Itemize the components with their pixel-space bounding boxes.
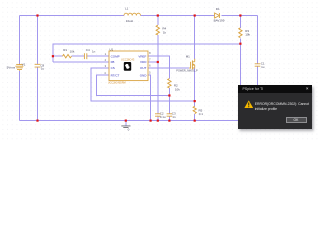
- svg-text:POWER_NMOS_P: POWER_NMOS_P: [176, 70, 198, 73]
- node bus ground: [125, 120, 127, 122]
- svg-text:U1: U1: [109, 47, 113, 51]
- node CS junction: [194, 100, 196, 102]
- wire COMP R1-C4 link: [72, 55, 84, 57]
- wire OUT to gate: [148, 67, 189, 69]
- wire VREF stub and R2 top: [148, 56, 169, 78]
- svg-text:1: 1: [105, 52, 107, 56]
- capacitor C2: [155, 114, 161, 116]
- node bus C3: [168, 120, 170, 122]
- wire R4 VDD line middle: [157, 35, 159, 114]
- capacitor C8: [35, 64, 41, 67]
- resistor R5: [193, 106, 196, 113]
- wire ground symbol stub: [125, 121, 127, 126]
- svg-text:1u: 1u: [261, 65, 265, 69]
- node bus C8: [36, 120, 38, 122]
- transistor M1: [189, 59, 195, 70]
- svg-text:0.1u: 0.1u: [160, 115, 166, 119]
- svg-text:RT/CT: RT/CT: [111, 73, 120, 77]
- capacitor C3: [167, 114, 173, 116]
- node bus GND pin: [150, 120, 152, 122]
- wire V1 vertical upper: [19, 16, 21, 65]
- wire RT/CT pin 4 loop: [96, 75, 169, 96]
- source V1: [15, 64, 23, 71]
- node RT/CT junction: [168, 94, 170, 96]
- wire FB feedback top: [53, 44, 241, 62]
- svg-text:V1: V1: [22, 62, 26, 66]
- svg-text:UCC28C43DRM: UCC28C43DRM: [108, 81, 126, 84]
- wire COMP left lead: [53, 55, 63, 57]
- svg-text:10k: 10k: [70, 49, 75, 53]
- node top junction R3: [239, 14, 241, 16]
- wire C8 vertical upper: [37, 16, 39, 65]
- node COMP tap: [52, 55, 54, 57]
- wire C8 vertical lower: [37, 68, 39, 121]
- svg-text:1k: 1k: [163, 30, 167, 34]
- resistor R4: [156, 25, 159, 35]
- capacitor C1: [255, 64, 261, 66]
- svg-text:1n: 1n: [172, 115, 176, 119]
- svg-text:C4: C4: [86, 48, 90, 52]
- op-amp U1 box: [109, 51, 148, 81]
- wire R5 bottom lead: [194, 114, 196, 120]
- wire ground bus: [20, 120, 239, 122]
- svg-text:5Vrms: 5Vrms: [7, 65, 16, 69]
- wire top bus middle segment: [141, 15, 214, 17]
- wire C3 bottom lead: [168, 116, 170, 120]
- svg-text:VDD: VDD: [140, 60, 147, 64]
- wire VDD stub: [148, 61, 158, 63]
- wire C1 line top: [257, 16, 259, 64]
- node top junction C8: [36, 14, 38, 16]
- svg-text:L1: L1: [125, 7, 129, 11]
- svg-text:8: 8: [149, 51, 151, 55]
- resistor R2: [168, 79, 171, 89]
- resistor R3: [239, 28, 242, 38]
- wire V1 vertical lower: [19, 71, 21, 121]
- wire top bus left segment: [20, 15, 125, 17]
- wire C1 bottom lead: [257, 66, 259, 85]
- node bus C2: [157, 120, 159, 122]
- resistor R1: [63, 55, 72, 58]
- inductor L1: [124, 13, 140, 15]
- node VDD junction: [157, 61, 159, 63]
- node bus R5: [194, 120, 196, 122]
- wire R3 bottom to FB node: [239, 39, 241, 86]
- svg-text:R1: R1: [63, 48, 67, 52]
- svg-text:UCC28C43: UCC28C43: [121, 58, 135, 62]
- wire GND stub down: [148, 75, 151, 121]
- wire R3 line top: [239, 16, 241, 28]
- svg-text:10k: 10k: [175, 88, 180, 92]
- dialog PSpice for TI error: [238, 85, 312, 129]
- svg-text:FB: FB: [111, 60, 115, 64]
- ground symbol: [121, 126, 130, 128]
- capacitor C4: [84, 53, 86, 59]
- svg-text:OUT: OUT: [140, 66, 147, 70]
- svg-text:CS: CS: [111, 66, 115, 70]
- wire COMP C4 to pin 1: [87, 55, 109, 57]
- svg-text:5: 5: [149, 70, 151, 74]
- wire R2 bottom to C3: [168, 88, 170, 114]
- svg-text:4: 4: [104, 71, 106, 75]
- wire CS pin 3 loop: [91, 68, 195, 101]
- svg-text:1n: 1n: [92, 49, 96, 53]
- svg-text:0: 0: [128, 127, 130, 131]
- wire top bus right segment: [221, 15, 257, 17]
- svg-text:COMP: COMP: [111, 54, 120, 58]
- svg-text:0.1: 0.1: [199, 112, 204, 116]
- svg-text:M1: M1: [186, 55, 190, 59]
- wire C2 bottom lead: [157, 116, 159, 120]
- warning icon: [244, 100, 254, 109]
- svg-text:10uH: 10uH: [126, 19, 133, 23]
- wire FB to pin 2: [53, 61, 109, 63]
- svg-text:7: 7: [149, 57, 151, 61]
- svg-text:10k: 10k: [245, 33, 250, 37]
- svg-text:1u: 1u: [41, 67, 45, 71]
- svg-text:GND: GND: [140, 73, 148, 77]
- svg-text:D1: D1: [216, 7, 220, 11]
- wire R4 VDD line top: [157, 16, 159, 26]
- wire M1 source to CS node: [194, 68, 196, 107]
- svg-text:VREF: VREF: [138, 54, 146, 58]
- node FB R3 junction: [239, 43, 241, 45]
- wire M1 drain line: [194, 16, 196, 59]
- svg-text:BAV199: BAV199: [214, 18, 225, 22]
- node top junction M1: [194, 14, 196, 16]
- diode D1: [215, 13, 220, 18]
- node top junction R4: [157, 14, 159, 16]
- svg-text:6: 6: [149, 64, 151, 68]
